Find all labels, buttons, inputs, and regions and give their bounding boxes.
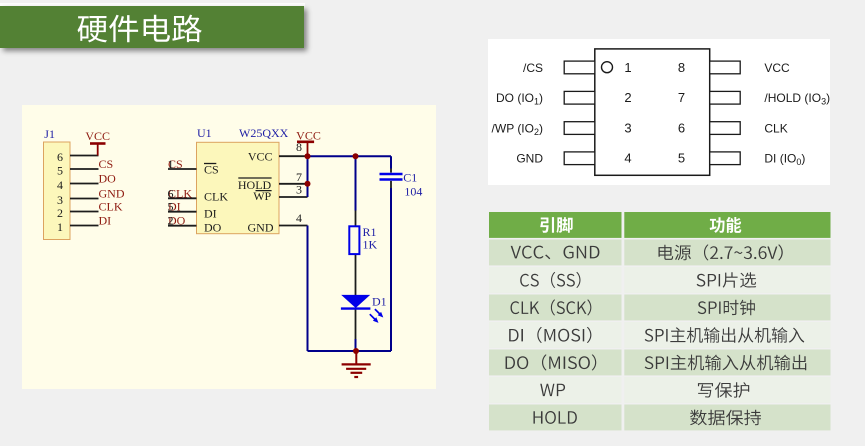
cell CLK（SCK） (510, 299, 591, 315)
svg-text:DI: DI (204, 206, 217, 220)
cell SPI时钟 (698, 300, 755, 316)
svg-text:DI: DI (99, 214, 112, 228)
pinout pin-1 marker circle (602, 62, 613, 73)
R1 bottom lead to LED (355, 254, 357, 295)
svg-text:3: 3 (57, 193, 63, 207)
svg-text:DO: DO (204, 221, 222, 235)
wire U1 pin 1 (CS) (168, 168, 197, 170)
svg-text:DO: DO (99, 172, 117, 186)
svg-text:5: 5 (678, 151, 685, 166)
svg-text:2: 2 (57, 206, 63, 220)
pinout right pin stub 8 (710, 61, 741, 74)
svg-text:7: 7 (678, 90, 685, 105)
power symbol VCC (U1 pin 8) (296, 129, 321, 157)
wire J1 pin 1 (70, 225, 99, 227)
table row DI（MOSI） (489, 322, 622, 348)
wire U1 pin 7 (279, 183, 308, 185)
cell SPI片选 (697, 272, 757, 288)
wire U1 pin 6 (CLK) (168, 197, 197, 199)
svg-text:1: 1 (57, 220, 63, 234)
cell 数据保持 (690, 410, 761, 426)
wire J1 pin 6 (70, 155, 99, 157)
cell VCC、GND (511, 246, 600, 260)
wire U1 pin 8 (279, 155, 308, 157)
wire J1 pin 3 (70, 198, 99, 200)
wire VCC rail horizontal (308, 155, 392, 157)
capacitor C1 plates (380, 173, 403, 175)
junction pin7 (305, 181, 311, 187)
cell CS（SS） (520, 272, 580, 288)
C1 bottom lead (390, 181, 392, 188)
table row CS（SS） (489, 267, 622, 293)
svg-text:GND: GND (516, 152, 543, 166)
svg-text:VCC: VCC (85, 129, 110, 143)
wire LED to rail (355, 339, 357, 351)
svg-text:4: 4 (57, 178, 63, 192)
svg-text:5: 5 (57, 163, 63, 177)
wire pin8 to pin7/pin3 vertical (307, 156, 309, 197)
IC pinout diagram panel (488, 39, 830, 185)
svg-text:1: 1 (624, 60, 631, 75)
svg-text:2: 2 (624, 90, 631, 105)
wire C1 to ground rail (390, 188, 392, 351)
cell 写保护 (698, 382, 749, 398)
pinout left pin stub 2 (564, 91, 595, 104)
table row VCC、GND (489, 240, 622, 266)
R1 top lead (355, 211, 357, 227)
svg-text:/CS: /CS (523, 61, 543, 75)
pinout left pin stub 1 (564, 61, 595, 74)
pinout right pin stub 5 (710, 152, 741, 165)
svg-text:WP: WP (253, 189, 271, 203)
svg-text:6: 6 (57, 150, 63, 164)
svg-text:8: 8 (678, 60, 685, 75)
table row CLK（SCK） (489, 295, 622, 321)
connector J1 body (44, 142, 71, 240)
svg-text:CLK: CLK (764, 121, 787, 135)
svg-text:VCC: VCC (764, 61, 790, 75)
pin function table (489, 212, 831, 432)
pinout right pin stub 6 (710, 122, 741, 135)
svg-text:VCC: VCC (296, 129, 321, 143)
wire J1 pin 2 (70, 211, 99, 213)
svg-text:4: 4 (624, 151, 631, 166)
svg-text:U1: U1 (197, 126, 212, 140)
banner top highlight (0, 3, 305, 6)
wire GND pin4 down (307, 226, 309, 352)
cell 电源（2.7~3.6V） (659, 244, 783, 260)
svg-text:4: 4 (296, 211, 302, 225)
svg-text:6: 6 (168, 186, 174, 200)
wire U1 pin 4 (279, 225, 308, 227)
svg-text:3: 3 (296, 183, 302, 197)
svg-text:5: 5 (168, 200, 174, 214)
svg-text:3: 3 (624, 120, 631, 135)
title banner (0, 6, 304, 48)
svg-text:D1: D1 (372, 295, 387, 309)
cell HOLD (533, 411, 576, 424)
table header row (489, 212, 622, 238)
wire R1 branch (355, 156, 357, 210)
ground symbol (342, 351, 371, 377)
IC U1 body (197, 142, 280, 233)
svg-text:CS: CS (204, 162, 219, 176)
svg-text:1: 1 (168, 157, 174, 171)
wire J1 pin 4 (70, 183, 99, 185)
cell SPI主机输入从机输出 (645, 355, 807, 371)
svg-text:CS: CS (99, 157, 114, 171)
cell DI（MOSI） (509, 327, 591, 343)
junction ground rail (353, 348, 359, 354)
junction VCC pin8 (305, 153, 311, 159)
cell SPI主机输出从机输入 (645, 327, 805, 343)
wire U1 pin 3 (279, 196, 308, 198)
svg-text:1K: 1K (363, 238, 378, 252)
wire U1 pin 5 (DI) (168, 211, 197, 213)
C1 top lead (390, 169, 392, 173)
table row HOLD (489, 405, 622, 431)
svg-text:C1: C1 (403, 171, 417, 185)
resistor R1 body (349, 226, 359, 254)
power symbol VCC (J1) (85, 129, 110, 156)
table row DO（MISO） (489, 350, 622, 376)
wire C1 branch top (390, 156, 392, 168)
cell DO（MISO） (506, 354, 597, 370)
title text 硬件电路 (77, 15, 201, 43)
svg-text:GND: GND (99, 187, 125, 201)
header 功能 (710, 217, 742, 233)
svg-text:104: 104 (404, 185, 422, 199)
svg-text:J1: J1 (44, 127, 55, 141)
wire J1 pin 5 (70, 168, 99, 170)
junction R1 branch (353, 153, 359, 159)
pinout left pin stub 4 (564, 152, 595, 165)
svg-text:CLK: CLK (204, 189, 228, 203)
svg-text:GND: GND (248, 221, 274, 235)
svg-text:/HOLD (IO3): /HOLD (IO3) (764, 91, 830, 107)
pinout right pin stub 7 (710, 91, 741, 104)
pinout chip body (595, 49, 710, 175)
LED bottom lead to rail (355, 309, 357, 339)
wire bottom ground rail (308, 350, 392, 352)
table row WP (489, 377, 622, 403)
cell WP (540, 384, 565, 396)
LED D1 symbol (341, 295, 383, 323)
svg-text:2: 2 (168, 214, 174, 228)
svg-text:W25QXX: W25QXX (239, 126, 289, 140)
svg-text:CLK: CLK (99, 200, 123, 214)
wire U1 pin 2 (DO) (168, 225, 197, 227)
pinout left pin stub 3 (564, 122, 595, 135)
header 引脚 (540, 217, 572, 233)
svg-text:6: 6 (678, 120, 685, 135)
svg-text:VCC: VCC (248, 149, 273, 163)
